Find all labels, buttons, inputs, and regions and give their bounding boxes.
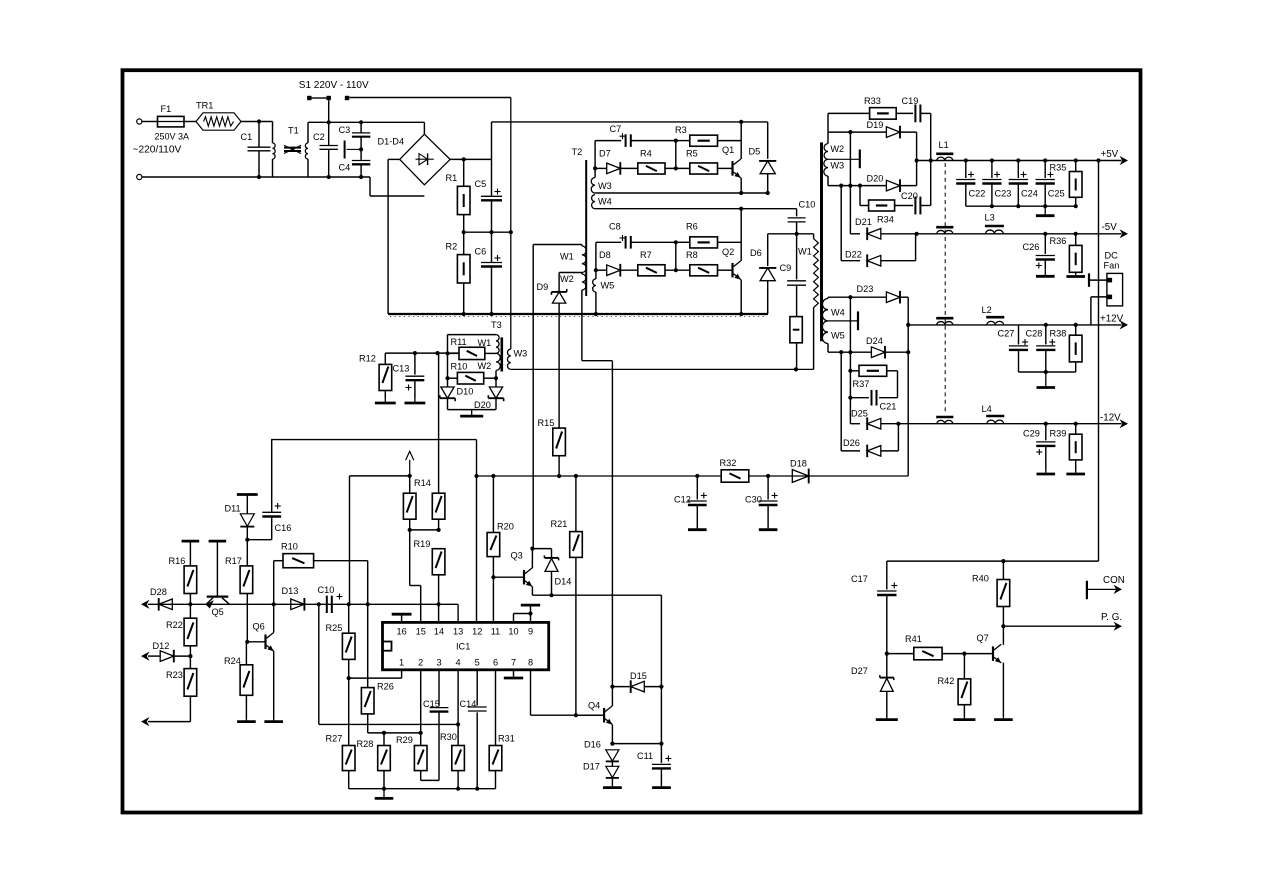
resistor R37 <box>850 370 859 372</box>
zener D27 <box>851 654 894 717</box>
junction <box>327 120 331 124</box>
resistor R5 <box>686 149 731 175</box>
svg-text:R5: R5 <box>686 149 698 159</box>
junction <box>739 120 743 124</box>
pin2 wire <box>420 670 422 746</box>
svg-text:F1: F1 <box>161 104 172 114</box>
svg-text:Q3: Q3 <box>511 551 523 561</box>
svg-text:W5: W5 <box>831 331 845 341</box>
wire D19 cathode down <box>916 132 918 186</box>
diode D13 <box>282 586 305 611</box>
svg-text:12: 12 <box>472 626 482 636</box>
diode D17 <box>583 761 619 786</box>
wire bridge top vertex <box>423 122 425 134</box>
resistor R40 <box>972 561 1010 626</box>
svg-text:R25: R25 <box>326 623 343 633</box>
svg-text:C13: C13 <box>393 364 410 374</box>
wire C19 to rail <box>930 113 932 205</box>
junction <box>435 351 439 355</box>
wire clamp bottom <box>448 409 497 411</box>
svg-text:L4: L4 <box>982 404 992 414</box>
svg-text:Q6: Q6 <box>253 622 265 632</box>
resistor R14b <box>432 353 445 530</box>
pin13 wire <box>457 604 459 622</box>
choke L1 <box>936 140 953 161</box>
svg-text:D16: D16 <box>584 740 601 750</box>
fan plus wire and bar <box>1089 273 1107 286</box>
vertical link <box>849 132 851 186</box>
winding W3 of T2 <box>591 178 612 194</box>
svg-text:C9: C9 <box>780 263 792 273</box>
diode D23 <box>857 284 909 304</box>
diode D25 <box>850 352 898 430</box>
diode D28 <box>150 587 172 611</box>
strap <box>408 528 441 532</box>
pin6 wire <box>495 670 497 746</box>
wire Q4 collector <box>611 687 613 706</box>
svg-text:R32: R32 <box>720 458 737 468</box>
svg-text:C3: C3 <box>339 125 351 135</box>
resistor R29 <box>396 735 439 780</box>
svg-text:11: 11 <box>491 626 501 636</box>
svg-text:W5: W5 <box>601 281 615 291</box>
main transformer core <box>820 142 823 341</box>
resistor R38 <box>1050 323 1083 372</box>
junction <box>848 396 852 400</box>
pin5 wire / C14 <box>460 670 487 789</box>
junction <box>794 367 798 371</box>
svg-text:~220/110V: ~220/110V <box>133 145 182 156</box>
wire R1 R2 midpoint <box>464 231 511 233</box>
svg-text:W3: W3 <box>830 161 844 171</box>
junction <box>462 230 466 234</box>
svg-text:R3: R3 <box>675 125 687 135</box>
svg-text:T2: T2 <box>572 147 583 157</box>
svg-text:1: 1 <box>399 658 404 668</box>
svg-text:13: 13 <box>453 626 463 636</box>
junction <box>188 654 192 658</box>
svg-text:+12V: +12V <box>1100 314 1124 325</box>
junction <box>382 731 386 735</box>
wire W1 tap to D9 <box>559 273 582 292</box>
svg-text:W2: W2 <box>830 144 844 154</box>
svg-text:C16: C16 <box>275 523 292 533</box>
capacitor C29 <box>1023 422 1055 470</box>
resistor R36 <box>1050 232 1083 274</box>
svg-text:W3: W3 <box>514 349 528 359</box>
wire R41 row <box>887 653 914 655</box>
ground <box>405 398 426 403</box>
resistor R30 <box>440 732 464 789</box>
svg-text:Q4: Q4 <box>588 701 600 711</box>
resistor R35 <box>1050 158 1083 206</box>
svg-text:C10: C10 <box>799 200 816 210</box>
capacitor C23 <box>982 158 1011 206</box>
ground <box>953 717 975 720</box>
fan minus wire to +12V <box>1091 297 1107 325</box>
diode D24 <box>866 336 908 359</box>
wire to off-page <box>148 721 190 723</box>
svg-text:D12: D12 <box>153 641 170 651</box>
svg-text:C25: C25 <box>1048 189 1065 199</box>
ground <box>994 717 1013 720</box>
svg-text:C21: C21 <box>880 402 897 412</box>
svg-text:D1-D4: D1-D4 <box>378 137 405 147</box>
svg-text:T1: T1 <box>288 126 299 136</box>
svg-text:C22: C22 <box>969 189 986 199</box>
transistor Q6 <box>253 622 274 652</box>
svg-text:D19: D19 <box>867 120 884 130</box>
wire bridge minus output <box>388 159 400 314</box>
junction <box>456 787 460 791</box>
junction <box>906 323 910 327</box>
P.G. output <box>1003 612 1122 631</box>
junction <box>1043 204 1047 208</box>
wire AC to bridge top <box>308 121 424 123</box>
+12V rail <box>908 324 1121 326</box>
choke L3 <box>985 213 1004 234</box>
wire Q2 collector <box>740 209 742 261</box>
svg-text:C12: C12 <box>674 495 691 505</box>
svg-text:Q1: Q1 <box>722 145 734 155</box>
junction <box>257 175 261 179</box>
off-page arrow <box>141 717 150 726</box>
svg-text:L3: L3 <box>985 213 995 223</box>
junction <box>557 474 561 478</box>
junction <box>674 240 678 244</box>
junction <box>795 232 799 236</box>
center tap bar 12V <box>828 311 858 330</box>
wire +5V sense vertical <box>1098 161 1100 562</box>
junction <box>896 422 900 426</box>
capacitor C17 <box>851 561 897 654</box>
svg-text:D25: D25 <box>851 409 868 419</box>
wire W1 top to Q3 <box>532 245 534 549</box>
capacitor C9 <box>780 234 807 317</box>
label 250V 3A <box>155 132 190 142</box>
svg-text:L2: L2 <box>982 305 992 315</box>
junction <box>929 158 933 162</box>
+5V rail <box>917 160 1122 162</box>
svg-text:6: 6 <box>493 658 498 668</box>
svg-text:D20: D20 <box>867 174 884 184</box>
transistor Q4 <box>588 701 612 725</box>
junction <box>839 184 843 188</box>
junction <box>347 676 351 680</box>
svg-text:D13: D13 <box>282 586 299 596</box>
svg-text:C19: C19 <box>902 96 919 106</box>
svg-text:T3: T3 <box>491 320 502 330</box>
junction <box>359 147 363 151</box>
capacitor C10 snubber <box>788 200 816 234</box>
svg-text:D14: D14 <box>555 577 572 587</box>
resistor R14a <box>403 476 430 530</box>
junction <box>257 119 261 123</box>
svg-text:C26: C26 <box>1023 242 1040 252</box>
transformer T3 label <box>491 320 502 330</box>
junction <box>695 474 699 478</box>
junction <box>674 141 678 171</box>
svg-text:R23: R23 <box>166 670 183 680</box>
wire W2 bottom to drive <box>582 290 613 687</box>
diode D22 <box>841 186 915 267</box>
T3 core <box>500 337 503 371</box>
svg-text:2: 2 <box>418 658 423 668</box>
ground <box>876 717 898 720</box>
junction <box>1016 204 1020 208</box>
wire Q6 emitter <box>273 651 275 719</box>
wire W5 to ground rail <box>595 270 597 314</box>
junction <box>327 175 331 179</box>
svg-text:W2: W2 <box>560 274 574 284</box>
transistor Q2 <box>722 247 741 280</box>
svg-text:-12V: -12V <box>1100 413 1121 424</box>
svg-text:R27: R27 <box>326 734 343 744</box>
AC input terminal top <box>137 119 142 124</box>
junction <box>848 369 852 373</box>
svg-text:D11: D11 <box>225 504 241 514</box>
svg-text:+5V: +5V <box>1101 149 1119 160</box>
switch S1 220V-110V <box>299 80 511 100</box>
svg-text:R16: R16 <box>169 556 186 566</box>
resistor R27 <box>326 734 356 789</box>
supply bar R16 <box>182 541 200 566</box>
ground <box>759 528 778 531</box>
label W3 of T3 <box>514 349 528 359</box>
choke L2 <box>982 305 1005 325</box>
wire Q1 cell left <box>594 141 596 178</box>
ground <box>1066 470 1085 474</box>
svg-text:C29: C29 <box>1023 429 1040 439</box>
primary winding W1 of main transformer <box>798 234 818 370</box>
svg-text:C6: C6 <box>475 247 487 257</box>
junction <box>347 602 351 606</box>
resistor R19 <box>414 539 445 604</box>
label ~220/110V <box>133 145 182 156</box>
junction <box>610 742 614 746</box>
choke L4 <box>982 404 1005 424</box>
junction <box>906 350 910 354</box>
svg-text:C7: C7 <box>610 124 622 134</box>
winding W4 of T2 <box>592 195 612 209</box>
wire to pin15 <box>410 530 421 623</box>
ground <box>264 719 283 722</box>
svg-text:D28: D28 <box>150 587 167 597</box>
junction <box>382 787 386 791</box>
svg-text:TR1: TR1 <box>196 101 213 111</box>
resistor R41 <box>905 634 992 660</box>
resistor R3 <box>675 125 741 146</box>
wire Q2 cell left <box>595 242 597 270</box>
diode D8 <box>594 250 638 277</box>
wire S1 select line <box>510 98 512 350</box>
svg-text:R34: R34 <box>877 215 894 225</box>
fuse F1 <box>158 104 185 127</box>
supply bar D11 <box>237 495 258 514</box>
wire W3 bottom <box>595 192 768 194</box>
junction <box>419 731 423 735</box>
wire S1 to C2 <box>328 100 330 122</box>
svg-text:S1 220V - 110V: S1 220V - 110V <box>299 80 369 91</box>
svg-text:R35: R35 <box>1050 163 1067 173</box>
wire R10 left <box>274 561 283 605</box>
svg-text:W4: W4 <box>598 197 612 207</box>
wire R10 right <box>314 561 368 688</box>
svg-text:7: 7 <box>511 658 516 668</box>
fusible resistor <box>790 317 802 370</box>
svg-text:D24: D24 <box>866 336 883 346</box>
wire pin1 <box>349 670 402 678</box>
junction <box>489 312 493 316</box>
ground <box>375 398 396 403</box>
ground <box>652 786 671 789</box>
wire Q6 base <box>245 640 264 644</box>
resistor R34 <box>869 200 895 225</box>
capacitor C30 <box>745 476 778 528</box>
wire Q1 collector <box>740 122 742 159</box>
svg-text:D8: D8 <box>599 250 611 260</box>
junction <box>858 184 862 188</box>
choke winding -12V <box>936 417 953 424</box>
transistor Q3 <box>511 551 533 587</box>
capacitor C4 <box>339 149 371 177</box>
resistor R22 <box>166 618 197 668</box>
wire W3 bottom row <box>828 185 887 187</box>
resistor R20 <box>487 476 514 577</box>
diode D5 <box>749 122 777 193</box>
ground <box>1036 269 1055 276</box>
svg-text:C20: C20 <box>901 191 918 201</box>
svg-text:16: 16 <box>396 626 406 636</box>
chassis ground bar <box>345 141 362 159</box>
capacitor C26 <box>1023 232 1055 270</box>
ground <box>1066 274 1085 277</box>
svg-text:W2: W2 <box>478 361 492 371</box>
wire Q7 emitter <box>1002 663 1004 717</box>
IC1 TL494 <box>383 622 549 669</box>
capacitor C16 <box>247 440 291 540</box>
svg-text:R12: R12 <box>359 354 376 364</box>
-5V rail <box>917 233 1122 235</box>
wire Q1 emitter <box>740 178 742 193</box>
winding W3 secondary <box>824 159 844 185</box>
capacitor C13 <box>393 353 425 398</box>
svg-text:8: 8 <box>528 658 533 668</box>
ground <box>375 789 394 799</box>
junction <box>1074 204 1078 208</box>
junction <box>489 230 493 234</box>
junction <box>1001 559 1005 563</box>
svg-text:Q2: Q2 <box>722 247 734 257</box>
resistor R7 <box>638 250 690 276</box>
svg-text:D27: D27 <box>851 666 868 676</box>
junction <box>674 242 678 272</box>
primary ground rail <box>388 314 768 316</box>
junction <box>739 312 743 316</box>
resistor R4 <box>638 149 690 175</box>
diode D18 <box>790 459 809 484</box>
wire W4 bottom <box>595 208 797 210</box>
wire C16 top rail <box>271 440 476 476</box>
svg-text:C15: C15 <box>423 699 440 709</box>
bridge rectifier D1-D4 <box>378 134 451 185</box>
svg-text:R6: R6 <box>686 222 698 232</box>
svg-text:250V 3A: 250V 3A <box>155 132 190 142</box>
pin8 wire <box>531 670 604 715</box>
capacitor C24 <box>1009 158 1038 206</box>
junction <box>462 157 466 161</box>
svg-text:R4: R4 <box>640 149 652 159</box>
svg-text:4: 4 <box>456 658 461 668</box>
svg-text:-5V: -5V <box>1102 222 1118 233</box>
svg-text:C1: C1 <box>241 132 253 142</box>
wire AC to bridge bottom <box>370 177 424 196</box>
svg-text:R17: R17 <box>225 556 242 566</box>
svg-text:C11: C11 <box>637 751 653 761</box>
wire collector to D14 <box>532 549 551 558</box>
diode D9 <box>537 282 567 428</box>
resistor R32 <box>720 458 749 482</box>
svg-text:C24: C24 <box>1021 189 1038 199</box>
winding W2 of T2 primary <box>560 273 586 291</box>
winding W4 secondary <box>822 297 844 321</box>
svg-text:R40: R40 <box>972 574 989 584</box>
svg-text:D15: D15 <box>630 671 647 681</box>
svg-text:C17: C17 <box>851 574 868 584</box>
svg-text:R29: R29 <box>396 735 413 745</box>
capacitor C25 <box>1036 158 1065 206</box>
capacitor C12 <box>674 476 707 528</box>
svg-text:R41: R41 <box>905 634 922 644</box>
resistor R17 <box>225 540 253 642</box>
svg-text:C2: C2 <box>313 132 325 142</box>
junction <box>549 593 553 597</box>
wire D23 cathode down to D18 node <box>907 297 909 476</box>
junction <box>437 602 441 606</box>
junction <box>475 787 479 791</box>
wire W2 bottom <box>495 370 497 387</box>
junction <box>739 207 743 211</box>
svg-text:C10: C10 <box>318 585 335 595</box>
wire Q7 collector <box>1001 624 1005 645</box>
resistor R31 <box>489 734 515 789</box>
junction <box>359 120 363 124</box>
capacitor C22 <box>956 158 985 206</box>
svg-text:R37: R37 <box>853 379 870 389</box>
resistor R10 of T3 <box>445 362 498 385</box>
svg-text:D10: D10 <box>457 387 474 397</box>
wire pin11 to Q3 base <box>492 577 494 622</box>
resistor R24 <box>224 642 253 719</box>
svg-text:R21: R21 <box>551 519 568 529</box>
wire Q3 emitter rail <box>532 587 661 596</box>
resistor R21 <box>551 476 583 715</box>
-12V rail <box>898 423 1121 425</box>
junction <box>848 184 852 188</box>
wire Q4 emitter node <box>612 687 663 746</box>
resistor R28 <box>357 733 391 789</box>
junction <box>915 158 919 162</box>
capacitor C21 <box>850 390 897 412</box>
svg-text:D7: D7 <box>599 149 611 159</box>
T3 frame top wire <box>448 335 497 388</box>
junction <box>990 204 994 208</box>
winding W2 secondary <box>824 132 844 159</box>
svg-text:R19: R19 <box>414 539 431 549</box>
capacitor C10 control <box>318 585 343 613</box>
junction <box>766 474 770 478</box>
resistor R1 <box>446 159 471 232</box>
